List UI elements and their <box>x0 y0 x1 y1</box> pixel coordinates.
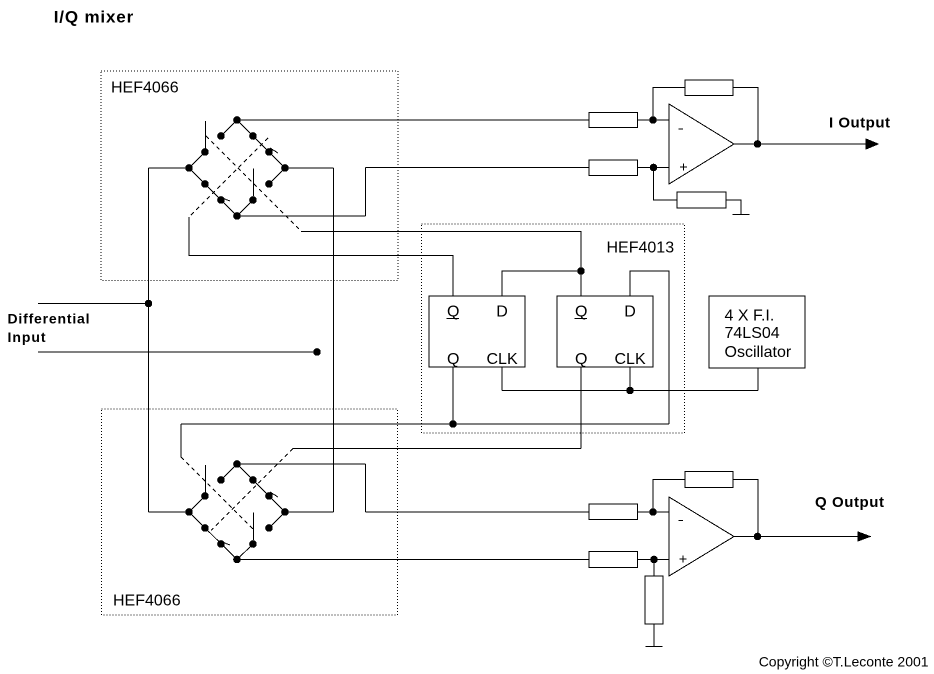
node output <box>754 141 761 148</box>
node inverting input <box>650 117 657 124</box>
switch SW8 bottom-right side (open): contact segments <box>237 512 285 560</box>
HEF4013 dotted enclosure <box>422 224 685 433</box>
node: bottom bridge right <box>282 509 289 516</box>
wire to R2 <box>366 167 590 169</box>
wire R5 to inverting input <box>638 511 670 513</box>
node: bottom bridge left <box>186 509 193 516</box>
resistor R8 <box>645 576 663 624</box>
control line SW6/SW7 (dashed) <box>211 449 293 531</box>
svg-text:D: D <box>496 304 508 321</box>
op-amp U2 <box>669 497 734 576</box>
switch SW5 arm <box>205 465 207 493</box>
svg-text:Q: Q <box>575 351 587 368</box>
resistor R6 <box>589 552 638 568</box>
svg-text:Copyright ©T.Leconte 2001: Copyright ©T.Leconte 2001 <box>759 654 929 670</box>
resistor R7 feedback <box>685 472 733 488</box>
contact dots SW8 <box>266 525 273 532</box>
wire non-inv down to R8 <box>653 560 655 577</box>
wire U3B Q down <box>580 367 582 449</box>
node: top bridge left <box>186 165 193 172</box>
wire R1 to inverting input <box>638 119 670 121</box>
wire riser <box>365 168 367 217</box>
HEF4066 bottom dotted enclosure <box>102 409 398 615</box>
HEF4066 top dotted enclosure <box>101 71 398 281</box>
wire U3B CLK down <box>629 367 631 391</box>
svg-text:Differential: Differential <box>8 311 90 327</box>
wire input line 1 <box>38 303 149 305</box>
svg-text:Q: Q <box>447 351 459 368</box>
svg-text:HEF4066: HEF4066 <box>113 593 181 610</box>
wire output <box>734 536 862 538</box>
switch SW5 top-left side (open): contact segments <box>189 464 237 512</box>
switch SW6 top-right side (closed) <box>237 464 285 512</box>
control line SW5/SW8 (dashed) <box>181 457 253 529</box>
control line SW1/SW4 (dashed) <box>206 136 301 231</box>
node: top bridge bottom <box>234 213 241 220</box>
arrow Q output <box>858 532 870 541</box>
wire R2 to non-inverting input <box>638 167 670 169</box>
node: bottom bridge bottom <box>234 556 241 563</box>
node: top bridge top <box>234 117 241 124</box>
wire feedback up <box>653 480 685 513</box>
wire R4 to ground <box>726 200 741 215</box>
U3A Qbar underline <box>447 318 460 320</box>
contact dots SW2 <box>250 133 257 140</box>
flip-flop U3B box <box>557 296 653 367</box>
wire top bridge bottom node right <box>237 215 366 217</box>
node Q1 junction <box>450 421 457 428</box>
resistor R1 <box>589 113 638 128</box>
wire R8 to ground <box>653 624 655 647</box>
wire Q1 net horizontal <box>181 423 669 425</box>
wire to bottom bridge left node <box>149 511 190 513</box>
node: bottom bridge top <box>234 461 241 468</box>
svg-text:Input: Input <box>8 329 46 345</box>
U3B Qbar underline <box>575 318 588 320</box>
wire output <box>734 143 870 145</box>
wire bottom bridge bottom node to R6 <box>237 559 589 561</box>
svg-text:Q Output: Q Output <box>815 494 884 511</box>
svg-text:Q: Q <box>447 304 459 321</box>
switch SW3 bottom-left side (closed) <box>189 168 237 216</box>
wire to R5 <box>366 511 590 513</box>
wire control net B: corner to U3A Qbar <box>189 217 453 296</box>
arrow I output <box>866 139 878 149</box>
switch SW1 top-left side (open): contact segments <box>189 120 237 168</box>
switch SW7 arm stub <box>222 542 230 545</box>
U1 minus sign <box>679 128 684 130</box>
resistor R3 feedback <box>685 80 733 96</box>
node end of input line 2 <box>314 349 321 356</box>
switch SW8 arm <box>253 513 255 541</box>
wire control net A: corner to U3B Qbar <box>301 232 581 297</box>
svg-text:I/Q mixer: I/Q mixer <box>54 7 134 26</box>
wire feedback to output <box>733 88 758 145</box>
switch SW2 top-right side (closed) <box>237 120 285 168</box>
svg-text:Q: Q <box>575 304 587 321</box>
op-amp U1 <box>669 104 734 184</box>
wire U3A D pin from node <box>502 271 581 296</box>
resistor R2 <box>589 160 638 176</box>
svg-text:I Output: I Output <box>829 114 890 131</box>
node output <box>754 533 761 540</box>
switch SW4 bottom-right side (open): contact segments <box>237 168 285 216</box>
wire control net C drop <box>180 424 182 457</box>
resistor R4 <box>677 192 726 208</box>
wire CLK net <box>502 390 758 392</box>
svg-text:HEF4013: HEF4013 <box>607 240 675 257</box>
svg-text:D: D <box>624 304 636 321</box>
U2 minus sign <box>679 520 684 522</box>
U1 plus sign <box>680 164 687 171</box>
wire center vertical bus <box>333 168 335 512</box>
svg-text:4 X F.I.: 4 X F.I. <box>725 307 775 324</box>
wire top bridge top node to R1 <box>237 119 589 121</box>
resistor R5 <box>589 504 638 520</box>
wire Q1 to U3B D <box>630 271 669 424</box>
svg-text:HEF4066: HEF4066 <box>111 80 179 97</box>
svg-text:Oscillator: Oscillator <box>725 344 792 361</box>
switch SW4 arm <box>253 169 255 197</box>
node: top bridge right <box>282 165 289 172</box>
switch SW6 arm stub <box>270 492 278 497</box>
wire bottom bridge right node to center vertical <box>285 511 334 513</box>
switch SW2 arm stub <box>270 148 278 153</box>
contact dots SW7 <box>202 525 209 532</box>
contact dots SW5 <box>218 477 225 484</box>
wire U3A CLK down <box>501 367 503 391</box>
wire non-inv to R4 <box>654 168 678 201</box>
control line SW2/SW3 (dashed) <box>189 138 268 217</box>
wire U3A Q down <box>452 367 454 424</box>
wire CLK riser to oscillator <box>757 368 759 391</box>
contact dots SW6 <box>250 477 257 484</box>
svg-text:CLK: CLK <box>487 351 518 368</box>
switch SW7 bottom-left side (closed) <box>189 512 237 560</box>
wire top bridge right node to center vertical <box>285 167 334 169</box>
switch SW3 arm stub <box>222 198 230 201</box>
wire feedback up <box>653 88 685 121</box>
switch SW1 arm <box>205 121 207 149</box>
oscillator box <box>709 296 805 368</box>
node non-inverting input <box>651 556 658 563</box>
wire to top bridge left node <box>149 167 190 169</box>
contact dots SW4 <box>266 181 273 188</box>
svg-text:74LS04: 74LS04 <box>725 325 780 342</box>
node control A / D1 <box>578 268 585 275</box>
node CLK junction <box>627 387 634 394</box>
wire feedback to output <box>733 480 758 537</box>
wire R6 to non-inverting input <box>638 559 670 561</box>
ground (bottom op-amp) <box>646 646 663 648</box>
node non-inverting input <box>650 164 657 171</box>
junction input 1 / left bus <box>145 300 152 307</box>
flip-flop U3A box <box>429 296 525 367</box>
wire bottom bridge top node right <box>237 463 366 465</box>
contact dots SW1 <box>218 133 225 140</box>
svg-text:CLK: CLK <box>615 351 646 368</box>
wire left vertical bus <box>148 168 150 512</box>
wire drop <box>365 464 367 512</box>
U2 plus sign <box>680 556 687 563</box>
contact dots SW3 <box>202 181 209 188</box>
ground (top op-amp) <box>733 214 750 216</box>
wire input line 2 <box>38 351 317 353</box>
node inverting input <box>650 509 657 516</box>
wire control net D horizontal <box>293 448 581 450</box>
